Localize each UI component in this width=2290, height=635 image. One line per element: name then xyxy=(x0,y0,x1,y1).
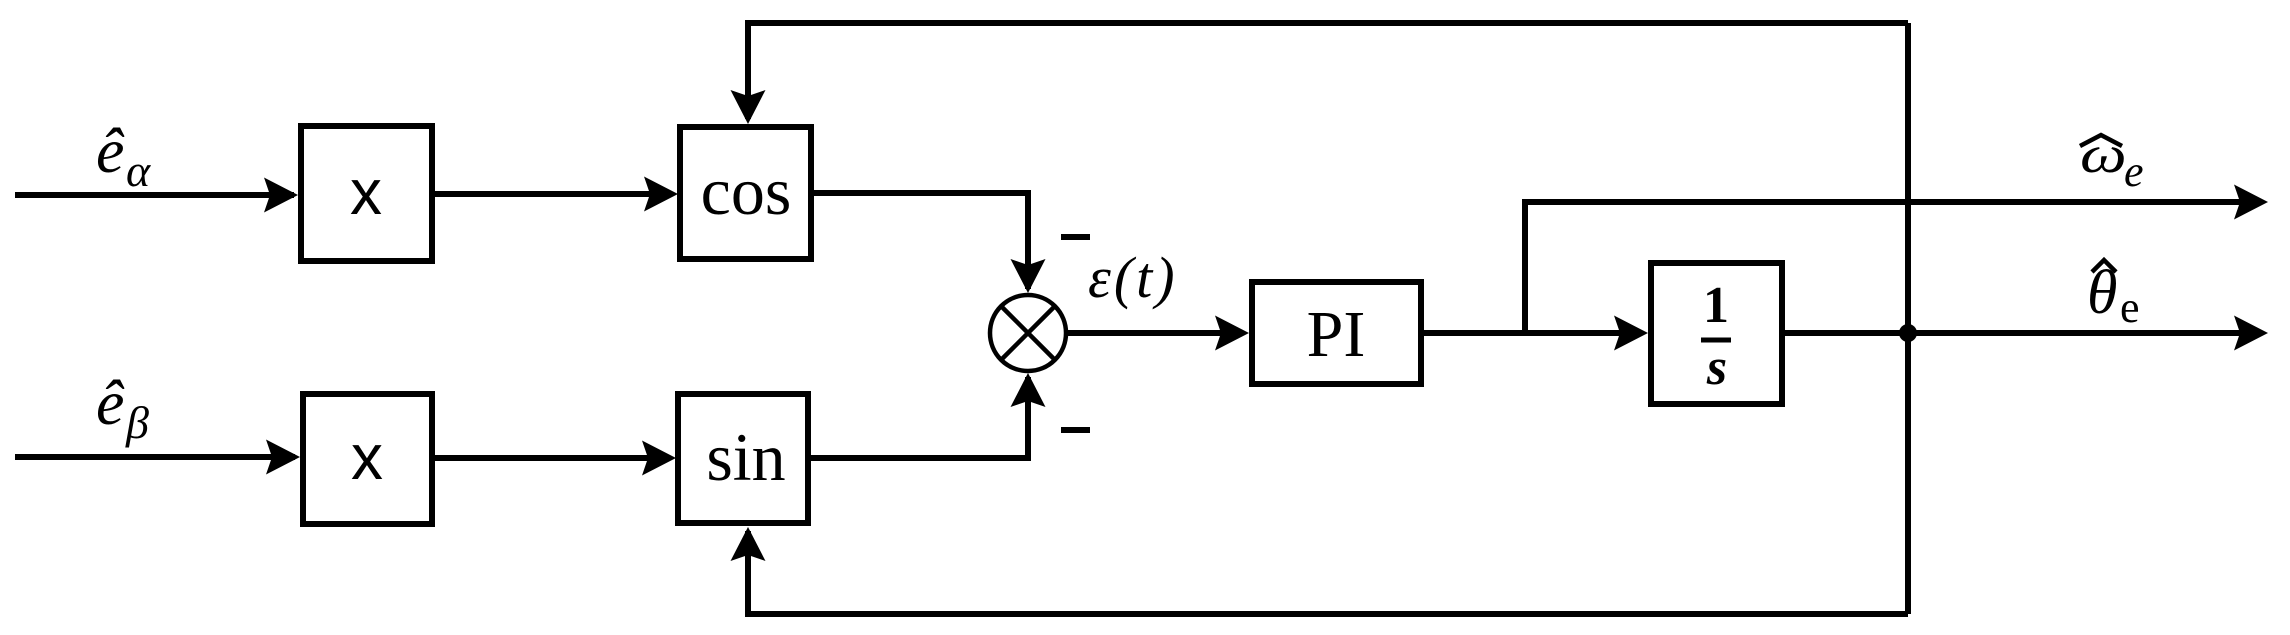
minus sign top xyxy=(1061,234,1090,240)
svg-text:ε(t): ε(t) xyxy=(1088,245,1178,310)
wire X2 to sin xyxy=(432,441,676,476)
svg-text:e: e xyxy=(2124,147,2144,196)
arrow omega output xyxy=(2234,185,2268,220)
wire sin to multiplier junction xyxy=(808,373,1046,458)
wire feedback top to cos xyxy=(731,23,1909,124)
wire X1 to cos xyxy=(432,177,678,212)
wire feedback bottom to sin xyxy=(731,527,1909,614)
PI block xyxy=(1252,282,1421,384)
wire PI to integrator xyxy=(1424,316,1648,351)
multiplier block X2 xyxy=(303,394,432,524)
svg-text:sin: sin xyxy=(706,419,785,495)
node label omega_e_hat xyxy=(2080,124,2144,196)
svg-text:ê: ê xyxy=(96,367,125,438)
node label e_alpha_hat xyxy=(96,115,151,196)
wire input e_beta xyxy=(15,440,300,475)
svg-text:α: α xyxy=(126,145,151,196)
node label theta_e_hat xyxy=(2087,259,2140,332)
svg-text:ω: ω xyxy=(2080,124,2127,184)
multiplier block X1 xyxy=(301,126,432,261)
integrator block 1/s xyxy=(1651,263,1782,404)
wire cos to multiplier junction xyxy=(811,193,1046,293)
wire integrator to theta output xyxy=(1785,330,2262,336)
wire junction to PI xyxy=(1066,316,1249,351)
wire input e_alpha xyxy=(15,178,298,213)
node label e_beta_hat xyxy=(96,367,149,448)
svg-text:x: x xyxy=(350,156,382,228)
svg-text:1: 1 xyxy=(1703,277,1729,334)
svg-text:s: s xyxy=(1706,339,1727,396)
svg-text:ê: ê xyxy=(96,115,125,186)
svg-text:e: e xyxy=(2120,283,2140,332)
junction node dot xyxy=(1899,324,1917,342)
wire feedback vertical xyxy=(1905,23,1911,614)
cos block xyxy=(680,127,811,259)
multiplier junction circle xyxy=(990,295,1066,371)
minus sign bottom xyxy=(1061,427,1090,433)
sin block xyxy=(678,394,808,523)
svg-text:β: β xyxy=(125,397,149,448)
svg-text:PI: PI xyxy=(1307,298,1366,371)
svg-text:x: x xyxy=(351,421,383,493)
svg-text:cos: cos xyxy=(701,153,792,229)
arrow theta output xyxy=(2234,316,2268,351)
wire tap up to omega output xyxy=(1525,202,2262,333)
